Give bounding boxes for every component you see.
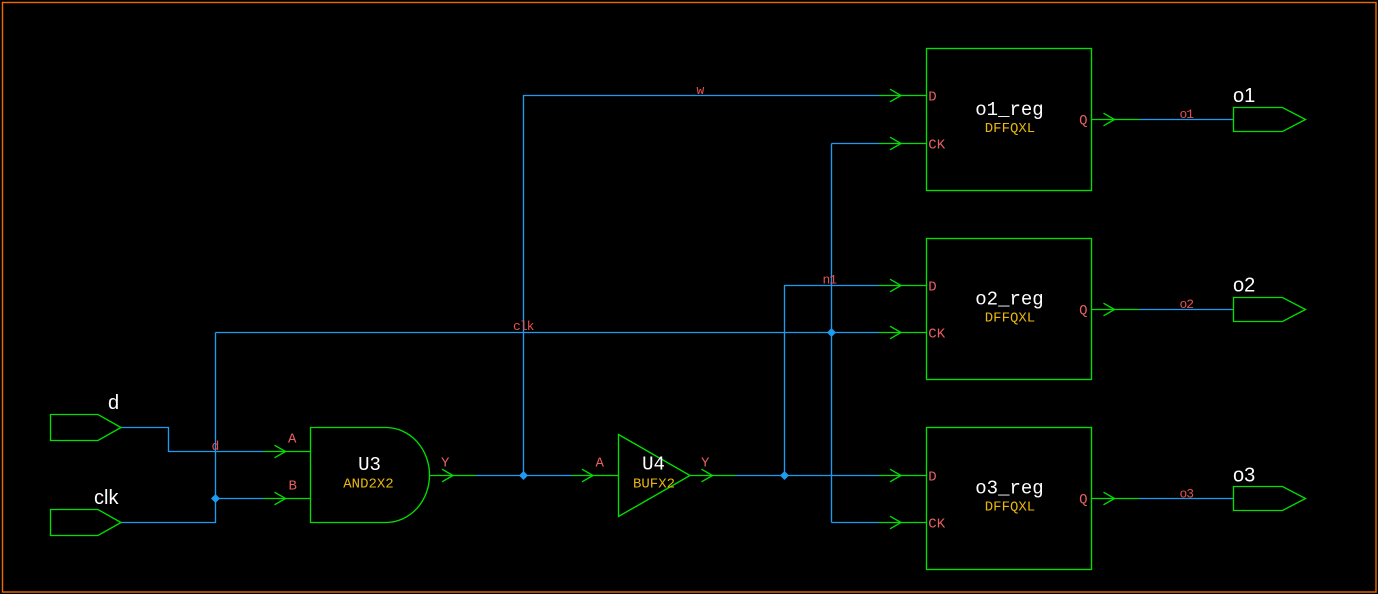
svg-text:o2: o2 xyxy=(1180,297,1194,312)
svg-text:AND2X2: AND2X2 xyxy=(343,477,393,493)
svg-text:n1: n1 xyxy=(823,273,838,288)
junction on net clk at clock trunk xyxy=(827,328,836,337)
junction on net n1 xyxy=(780,471,789,480)
svg-text:o1: o1 xyxy=(1180,107,1195,122)
o2_reg pin CK stub xyxy=(879,332,927,334)
U3 pin A stub xyxy=(264,451,311,453)
svg-text:o2_reg: o2_reg xyxy=(975,289,1043,311)
U4 pin A arrow xyxy=(582,469,593,482)
U3 pin A arrow xyxy=(275,445,286,458)
svg-text:w: w xyxy=(697,83,705,98)
svg-text:Q: Q xyxy=(1079,303,1087,319)
svg-text:CK: CK xyxy=(928,327,945,343)
U4 pin Y stub xyxy=(690,475,735,477)
svg-text:D: D xyxy=(928,90,936,106)
U3 pin B stub xyxy=(264,498,311,500)
svg-text:o1: o1 xyxy=(1233,85,1255,107)
wire net o2: o2_reg Q to port o2 xyxy=(1139,309,1234,311)
svg-text:o3_reg: o3_reg xyxy=(975,478,1043,500)
svg-text:Q: Q xyxy=(1079,113,1087,129)
wire net n1: U4 Y to o3_reg D xyxy=(735,475,879,477)
input port clk xyxy=(51,510,122,536)
svg-text:o3: o3 xyxy=(1233,465,1255,487)
svg-text:o2: o2 xyxy=(1233,275,1255,297)
svg-text:DFFQXL: DFFQXL xyxy=(985,311,1035,327)
U4 pin Y arrow xyxy=(702,469,713,482)
flip-flop o2_reg body xyxy=(927,239,1092,380)
input port d xyxy=(51,415,122,441)
flip-flop o3_reg body xyxy=(927,428,1092,570)
wire net clk: stub to o1_reg CK xyxy=(832,143,880,145)
wire net w: vertical riser and top run to o1_reg D xyxy=(524,96,880,476)
o1_reg pin Q arrow xyxy=(1104,113,1115,126)
o3_reg pin D stub xyxy=(879,475,927,477)
wire net clk: clk port to vertical riser xyxy=(121,333,216,523)
wire net clk: stub to o2_reg CK xyxy=(832,332,880,334)
junction on net w at U4 branch xyxy=(519,471,528,480)
o1_reg pin Q stub xyxy=(1092,119,1140,121)
svg-text:B: B xyxy=(289,479,297,495)
svg-text:D: D xyxy=(928,280,936,296)
o3_reg pin Q stub xyxy=(1092,498,1140,500)
U3 pin Y arrow xyxy=(442,469,453,482)
wire net w: branch to U4 pin A xyxy=(524,475,573,477)
o3_reg pin Q arrow xyxy=(1104,492,1115,505)
svg-text:CK: CK xyxy=(928,517,945,533)
o1_reg pin CK stub xyxy=(879,143,927,145)
svg-text:d: d xyxy=(212,439,219,454)
svg-text:o3: o3 xyxy=(1180,487,1194,502)
U4 pin A stub xyxy=(572,475,619,477)
wire net o1: o1_reg Q to port o1 xyxy=(1139,119,1234,121)
o3_reg pin D arrow xyxy=(890,469,901,482)
svg-text:clk: clk xyxy=(94,487,119,509)
wire net o3: o3_reg Q to port o3 xyxy=(1139,498,1234,500)
wire net clk: branch to U3 pin B xyxy=(216,498,264,500)
U3 pin B arrow xyxy=(275,492,286,505)
svg-text:Q: Q xyxy=(1079,492,1087,508)
svg-text:DFFQXL: DFFQXL xyxy=(985,500,1035,516)
svg-text:CK: CK xyxy=(928,138,945,154)
output port o1 xyxy=(1234,108,1306,132)
wire net w: U3 Y to riser xyxy=(476,475,524,477)
flip-flop o1_reg body xyxy=(927,49,1092,191)
wire net clk: stub to o3_reg CK xyxy=(832,522,880,524)
svg-text:clk: clk xyxy=(513,319,535,334)
o2_reg pin CK arrow xyxy=(890,326,901,339)
o1_reg pin D stub xyxy=(879,95,927,97)
svg-text:A: A xyxy=(288,432,297,448)
svg-text:D: D xyxy=(928,470,936,486)
buffer U4 body xyxy=(619,435,691,517)
svg-text:A: A xyxy=(596,456,605,472)
svg-text:U4: U4 xyxy=(642,454,665,476)
svg-text:DFFQXL: DFFQXL xyxy=(985,121,1035,137)
and gate U3 body xyxy=(311,428,430,523)
o2_reg pin Q arrow xyxy=(1104,303,1115,316)
o2_reg pin D stub xyxy=(879,285,927,287)
junction on net clk at U3 B branch xyxy=(211,494,220,503)
wire net n1: riser to o2_reg D xyxy=(785,286,880,476)
svg-text:d: d xyxy=(108,392,119,414)
o1_reg pin D arrow xyxy=(890,89,901,102)
svg-text:Y: Y xyxy=(701,456,710,472)
svg-text:Y: Y xyxy=(441,456,450,472)
U3 pin Y stub xyxy=(430,475,477,477)
o2_reg pin D arrow xyxy=(890,279,901,292)
wire net clk: vertical clock trunk xyxy=(831,144,833,523)
wire net d: input d port to U3 pin A xyxy=(121,428,264,452)
o3_reg pin CK arrow xyxy=(890,516,901,529)
wire net clk: horizontal run to clock tree xyxy=(216,332,832,334)
svg-text:U3: U3 xyxy=(358,454,381,476)
svg-text:o1_reg: o1_reg xyxy=(975,99,1043,121)
o2_reg pin Q stub xyxy=(1092,309,1140,311)
output port o2 xyxy=(1234,298,1306,322)
svg-text:BUFX2: BUFX2 xyxy=(633,477,675,493)
o3_reg pin CK stub xyxy=(879,522,927,524)
output port o3 xyxy=(1234,487,1306,511)
o1_reg pin CK arrow xyxy=(890,137,901,150)
